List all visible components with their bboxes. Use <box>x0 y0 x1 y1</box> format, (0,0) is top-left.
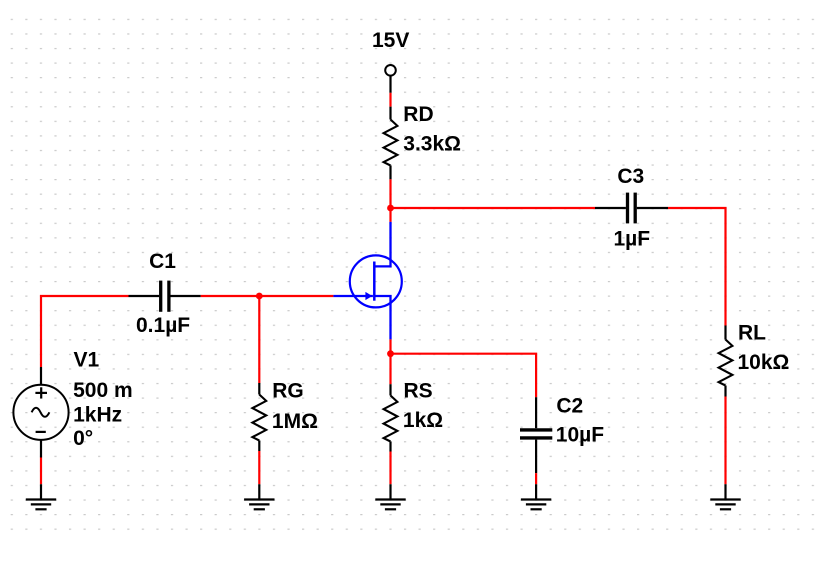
node junction C1/RG/gate <box>256 293 263 300</box>
wire C2 to ground <box>535 473 537 484</box>
wire RD to drain node <box>389 179 391 222</box>
wire source node to C2 <box>391 354 537 398</box>
ground under C2 <box>521 484 551 509</box>
svg-text:1MΩ: 1MΩ <box>272 410 318 433</box>
wire V1 bottom to ground <box>40 458 42 485</box>
svg-text:RS: RS <box>404 380 433 403</box>
resistor RS <box>384 384 398 451</box>
node source junction <box>387 350 394 357</box>
wire RL to ground <box>724 397 726 485</box>
resistor RL <box>719 326 733 397</box>
voltage source V1 <box>13 367 68 458</box>
capacitor C1 <box>129 281 201 312</box>
svg-text:C2: C2 <box>556 395 583 418</box>
wire drain node to C3 <box>391 207 596 209</box>
capacitor C2 <box>520 397 552 473</box>
ground under RL <box>710 484 740 509</box>
svg-text:RL: RL <box>738 321 766 344</box>
svg-text:1kHz: 1kHz <box>73 404 122 427</box>
svg-text:0°: 0° <box>73 427 93 450</box>
svg-text:10µF: 10µF <box>556 424 604 447</box>
wire RS to ground <box>389 452 391 485</box>
ground under RS <box>375 484 405 509</box>
wire C3 to RL <box>668 208 726 326</box>
ground under V1 <box>26 484 56 509</box>
svg-text:0.1µF: 0.1µF <box>136 314 190 337</box>
svg-text:3.3kΩ: 3.3kΩ <box>403 133 461 156</box>
wire C1 right to gate <box>201 295 334 297</box>
svg-text:C1: C1 <box>149 250 176 273</box>
svg-text:1kΩ: 1kΩ <box>403 409 443 432</box>
wire V1 top to C1 left <box>41 296 129 367</box>
wire node to RG <box>258 296 260 383</box>
svg-text:V1: V1 <box>74 349 100 372</box>
svg-text:10kΩ: 10kΩ <box>738 351 790 374</box>
ground under RG <box>244 484 274 509</box>
svg-text:RD: RD <box>403 103 433 126</box>
svg-text:1µF: 1µF <box>614 228 651 251</box>
wire terminal to RD <box>389 93 391 107</box>
capacitor C3 <box>595 193 668 224</box>
wire source node to RS <box>389 354 391 385</box>
wire RG to ground <box>258 451 260 484</box>
resistor RG <box>252 383 266 451</box>
JFET Q1 <box>333 222 401 340</box>
node drain junction <box>387 205 394 212</box>
wire source pin to source node <box>389 339 391 353</box>
svg-text:500 m: 500 m <box>73 379 133 402</box>
resistor RD <box>384 107 398 180</box>
power terminal 15V <box>385 65 396 93</box>
svg-text:C3: C3 <box>617 165 644 188</box>
svg-text:RG: RG <box>272 380 304 403</box>
svg-text:15V: 15V <box>372 29 409 52</box>
